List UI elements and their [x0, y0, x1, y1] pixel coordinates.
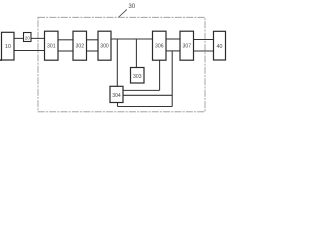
block 20	[24, 33, 32, 42]
block 303	[131, 68, 145, 84]
wire 304 to 306 bottom horizontal	[123, 89, 160, 91]
block 40	[214, 31, 226, 60]
svg-text:302: 302	[76, 44, 85, 50]
block 306	[153, 31, 167, 60]
wire 304 middle horizontal	[123, 94, 172, 96]
wire drop to 304 top	[116, 39, 118, 86]
wire drop to 303 top	[135, 39, 137, 68]
svg-text:301: 301	[47, 44, 56, 50]
wire 10 to 301 upper	[14, 37, 45, 39]
wire vertical junction to 306-307 lower wire	[171, 51, 173, 107]
wire 304 bottom vertical stub	[117, 103, 119, 107]
dashed module box 30	[38, 17, 205, 112]
svg-text:300: 300	[100, 44, 109, 50]
wire 304 to 306 bottom vertical	[159, 60, 161, 90]
wire 304 bottom horizontal	[118, 106, 173, 108]
block 300	[98, 31, 111, 60]
wire 300 to 306	[111, 38, 153, 40]
block 307	[180, 31, 194, 60]
wire 10 to 301 lower	[14, 50, 45, 52]
svg-text:304: 304	[112, 93, 121, 99]
wire 302 to 300 upper	[87, 39, 99, 41]
wire 301 to 302 upper	[58, 39, 73, 41]
block 304	[110, 86, 123, 102]
block 10	[2, 32, 15, 60]
svg-text:307: 307	[183, 44, 192, 50]
svg-text:20: 20	[25, 36, 31, 41]
wire 301 to 302 lower	[58, 50, 73, 52]
wire 306 to 307 upper	[166, 38, 180, 40]
wire 302 to 300 lower	[87, 50, 99, 52]
label 30 leader line	[119, 10, 127, 18]
svg-text:303: 303	[133, 74, 142, 80]
wire 307 to 40 lower	[194, 50, 214, 52]
wire 306 to 307 lower	[166, 50, 180, 52]
block 302	[73, 31, 87, 60]
block 301	[45, 31, 59, 60]
wire 307 to 40 upper	[194, 39, 214, 41]
wire stub left of block 10 bottom	[0, 59, 2, 61]
svg-text:30: 30	[128, 3, 135, 10]
svg-text:10: 10	[5, 44, 11, 50]
svg-text:306: 306	[155, 44, 164, 50]
svg-text:40: 40	[217, 44, 223, 50]
